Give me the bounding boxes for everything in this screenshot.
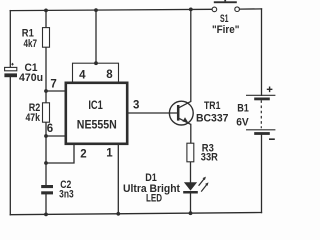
node junction pin 2 (44, 161, 48, 165)
node junction 4-8 box (94, 61, 98, 65)
battery B1 (236, 87, 275, 140)
switch S1 (212, 0, 240, 36)
wire top rail left (10, 9, 211, 10)
svg-text:6V: 6V (236, 117, 249, 129)
node junction top rail collector (189, 7, 193, 11)
wire C2 to bottom rail (45, 194, 47, 214)
wire pin 1 to bottom rail (117, 145, 119, 215)
svg-text:33R: 33R (201, 152, 218, 164)
resistor R2 (25, 102, 49, 124)
svg-text:BC337: BC337 (196, 113, 229, 125)
svg-text:NE555N: NE555N (77, 118, 117, 132)
wire right rail upper (261, 9, 263, 95)
svg-text:3n3: 3n3 (59, 189, 74, 201)
svg-text:4: 4 (79, 70, 86, 82)
transistor Q1 TR1 (169, 100, 228, 125)
wire pin 2 (46, 145, 74, 164)
wire R2 bottom to C2 (45, 122, 47, 185)
svg-text:2: 2 (80, 149, 86, 161)
LED D1 (123, 172, 209, 205)
svg-text:6: 6 (47, 123, 53, 135)
node junction pin 6 (44, 134, 48, 138)
svg-text:47k: 47k (25, 112, 40, 124)
op-amp timer IC U1 pins 4,8 box (73, 63, 119, 83)
IC U1 NE555N body (66, 83, 127, 144)
svg-text:8: 8 (106, 69, 113, 81)
node junction pin 7 (44, 89, 48, 93)
capacitor C2 (41, 179, 73, 201)
wire top rail right (240, 8, 262, 10)
wire pin 3 to base (128, 112, 177, 114)
wire collector to top rail (190, 9, 192, 101)
wire left rail upper (9, 11, 11, 68)
svg-text:B1: B1 (237, 102, 249, 114)
svg-text:1: 1 (106, 148, 113, 160)
svg-text:7: 7 (50, 78, 56, 90)
wire pin 7 (46, 90, 66, 92)
svg-text:TR1: TR1 (204, 100, 220, 112)
wire emitter to R3 (190, 124, 192, 143)
svg-text:4k7: 4k7 (23, 38, 37, 50)
svg-text:470u: 470u (19, 72, 43, 84)
node junction top rail R1 (44, 9, 48, 13)
svg-text:IC1: IC1 (88, 98, 103, 112)
node junction bottom rail C2 (44, 213, 48, 217)
wire right rail lower (261, 135, 263, 213)
wire pin 6 (46, 135, 66, 137)
node junction bottom rail pin 1 (116, 212, 120, 216)
wire bottom rail (10, 213, 261, 215)
wire R1 bottom to R2 top (45, 47, 47, 103)
node junction bottom rail LED (189, 211, 193, 215)
resistor R1 (22, 27, 50, 50)
wire LED to bottom rail (190, 194, 192, 214)
capacitor C1 (4, 62, 43, 84)
wire left rail lower (9, 77, 11, 215)
resistor R3 (187, 143, 218, 164)
node junction top rail IC supply (94, 8, 98, 12)
wire R3 to LED (190, 162, 192, 183)
wire R1 top (45, 10, 47, 28)
svg-text:LED: LED (146, 193, 162, 205)
svg-text:"Fire": "Fire" (212, 24, 240, 36)
svg-text:3: 3 (133, 100, 139, 112)
wire pins 4,8 to top rail (95, 10, 97, 64)
